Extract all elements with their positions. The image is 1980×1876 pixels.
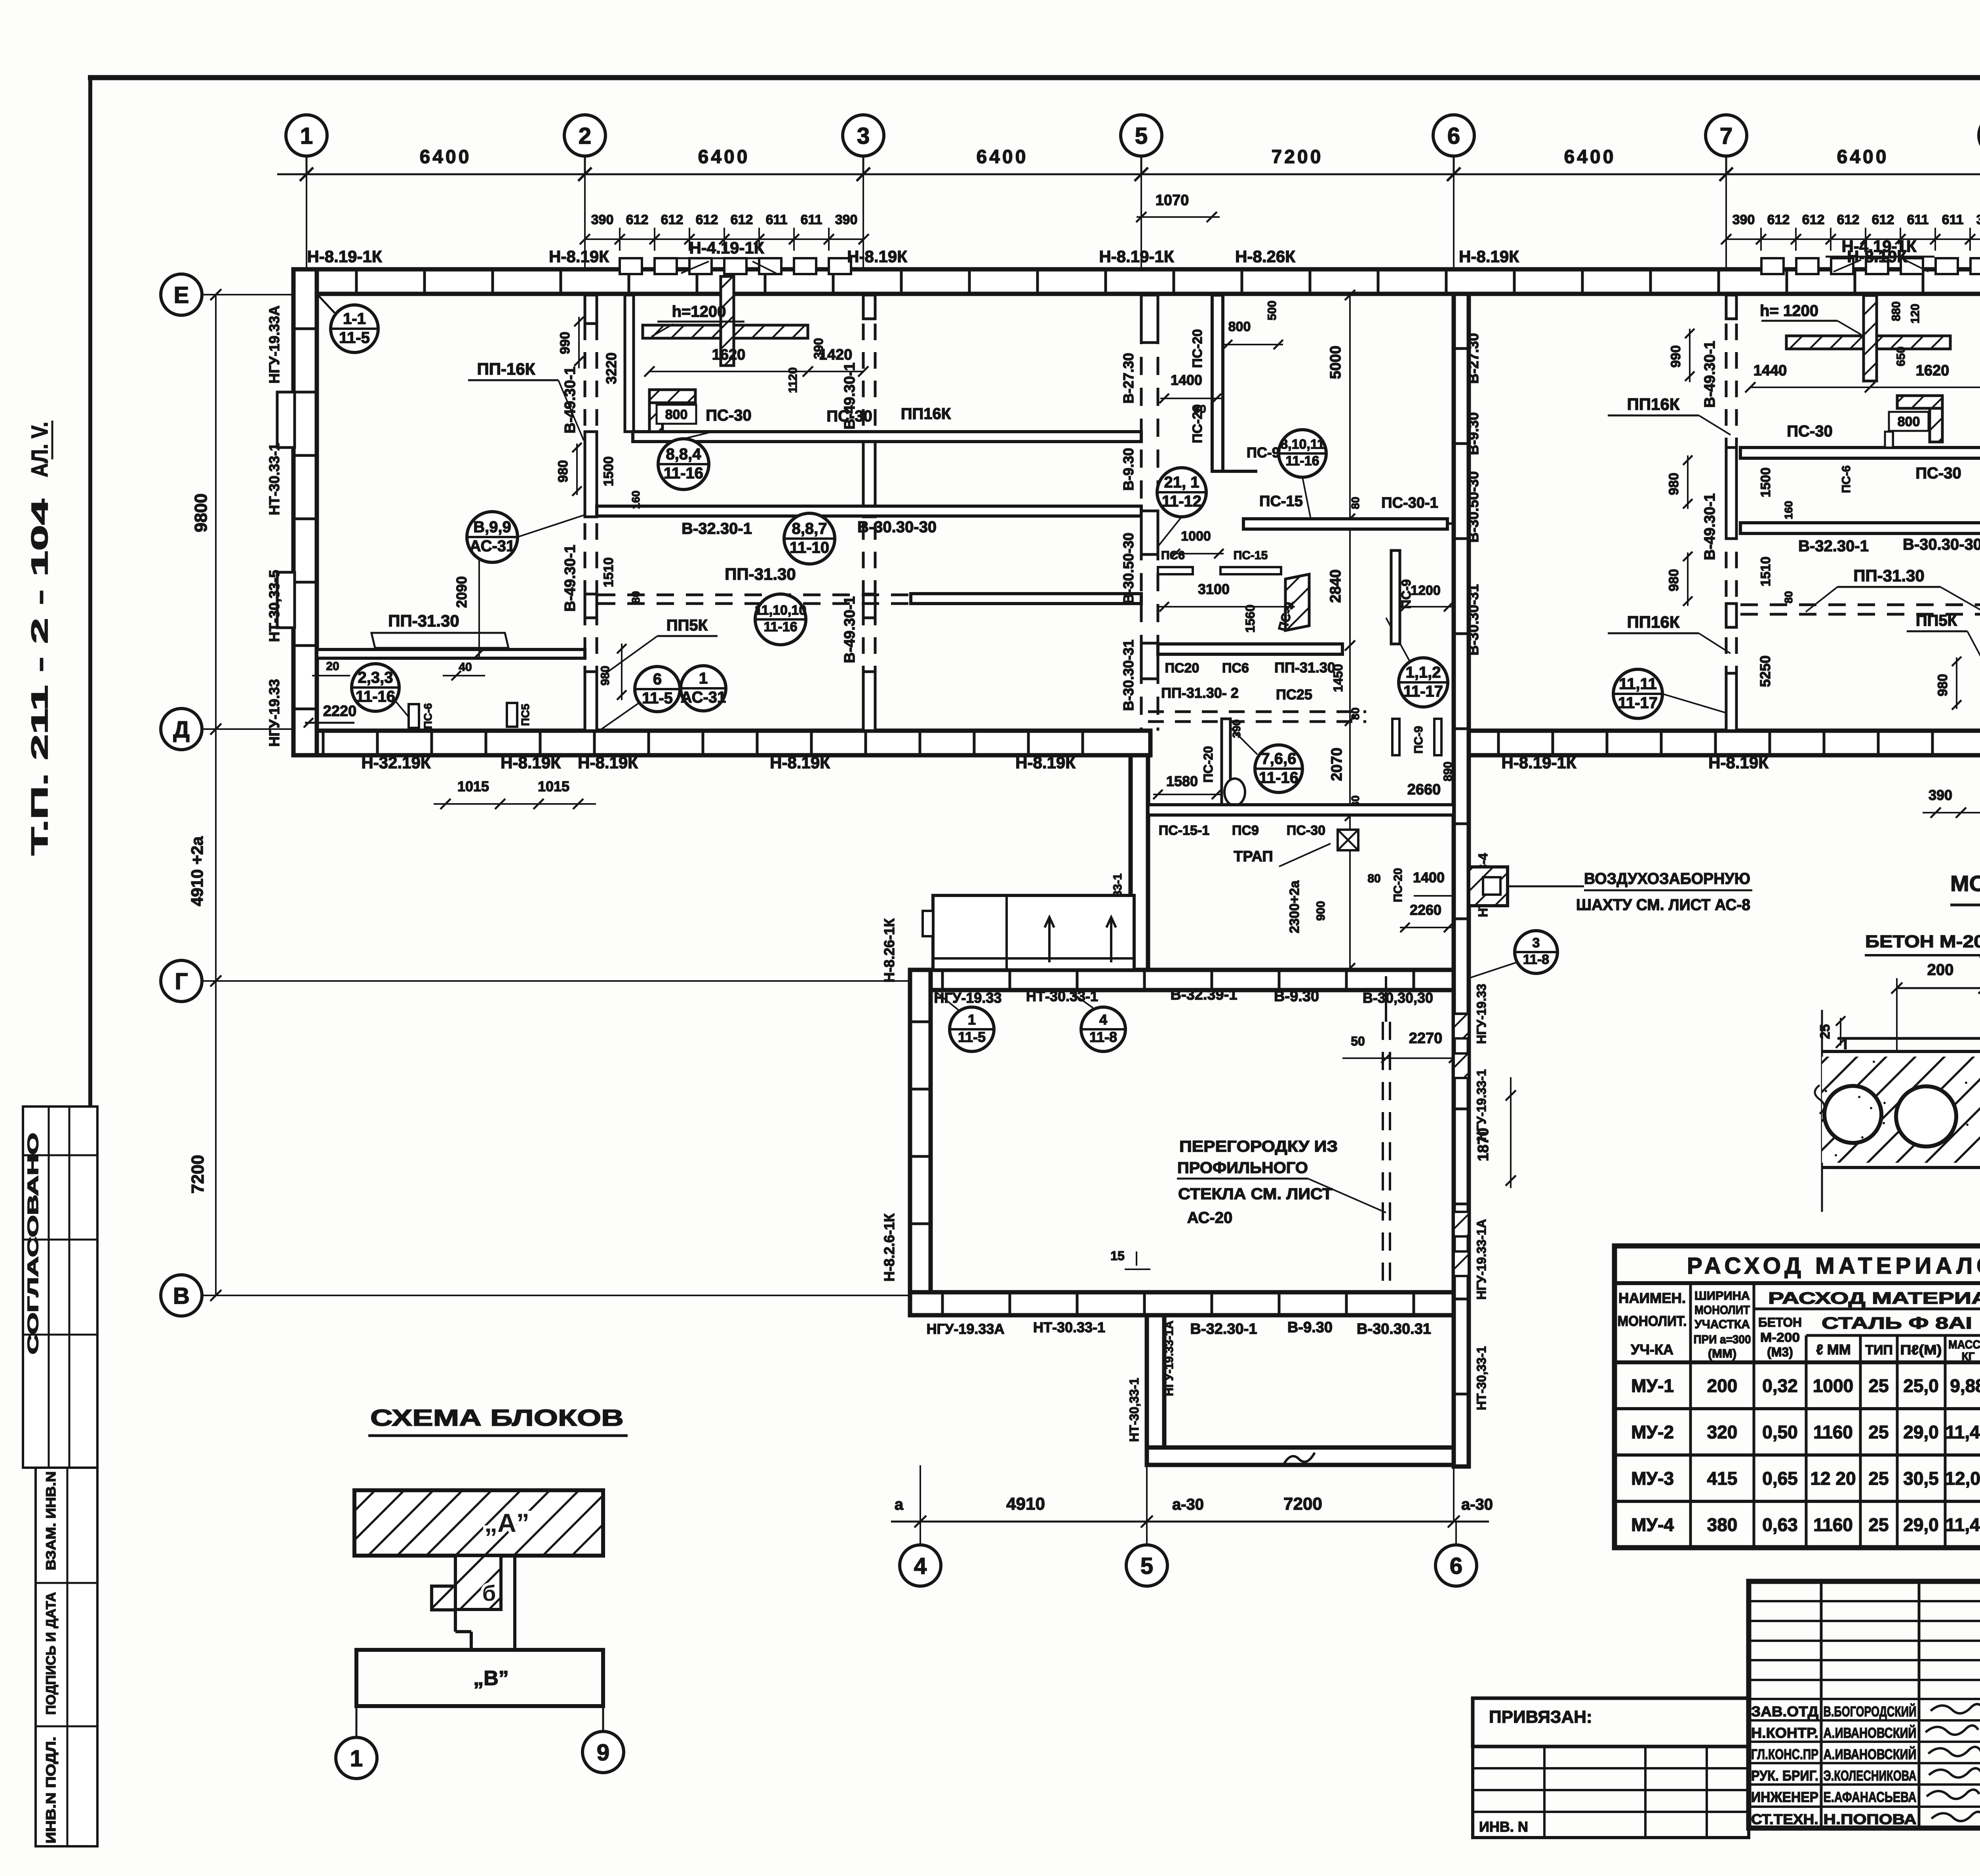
- svg-text:1: 1: [300, 123, 313, 149]
- svg-text:12 20: 12 20: [1810, 1468, 1856, 1489]
- svg-text:Н-8.19К: Н-8.19К: [1708, 753, 1769, 772]
- svg-text:6400: 6400: [1837, 147, 1889, 168]
- svg-text:УЧ-КА: УЧ-КА: [1631, 1341, 1673, 1358]
- svg-text:611: 611: [1907, 212, 1929, 227]
- svg-text:Н-8.19К: Н-8.19К: [847, 247, 907, 266]
- svg-text:h= 1200: h= 1200: [1760, 302, 1818, 320]
- svg-text:1440: 1440: [1753, 362, 1787, 379]
- svg-text:25: 25: [1868, 1514, 1889, 1535]
- svg-text:(ММ): (ММ): [1708, 1347, 1736, 1360]
- svg-text:АС-31: АС-31: [681, 689, 726, 706]
- svg-text:h=1200: h=1200: [672, 303, 726, 320]
- svg-text:НТ-30,33-1: НТ-30,33-1: [1474, 1346, 1489, 1410]
- svg-text:СТЕКЛА СМ. ЛИСТ: СТЕКЛА СМ. ЛИСТ: [1178, 1185, 1333, 1203]
- svg-text:11-17: 11-17: [1403, 683, 1443, 700]
- svg-text:980: 980: [1666, 473, 1681, 495]
- svg-text:29,0: 29,0: [1903, 1514, 1939, 1535]
- svg-text:7: 7: [1720, 123, 1732, 149]
- svg-text:В-9.30: В-9.30: [1274, 988, 1319, 1005]
- svg-text:611: 611: [766, 212, 788, 227]
- svg-text:7200: 7200: [1283, 1494, 1322, 1514]
- svg-text:В-30.30-30: В-30.30-30: [857, 518, 937, 536]
- svg-text:ПП16К: ПП16К: [1627, 613, 1680, 631]
- svg-text:160: 160: [1782, 501, 1795, 520]
- svg-text:ПС-15: ПС-15: [1234, 549, 1268, 562]
- svg-text:612: 612: [731, 212, 753, 227]
- svg-text:В-30.50-30: В-30.50-30: [1465, 471, 1481, 543]
- svg-text:80: 80: [630, 591, 642, 603]
- svg-text:390: 390: [835, 212, 858, 227]
- svg-text:1000: 1000: [1181, 529, 1211, 544]
- svg-text:В-49.30-1: В-49.30-1: [841, 596, 858, 663]
- svg-text:В-32.30-1: В-32.30-1: [1190, 1321, 1257, 1337]
- svg-text:11-12: 11-12: [1162, 493, 1201, 510]
- svg-text:В-30,30,30: В-30,30,30: [1363, 990, 1433, 1006]
- svg-text:Н.ПОПОВА: Н.ПОПОВА: [1824, 1811, 1917, 1827]
- svg-text:а-30: а-30: [1172, 1496, 1204, 1513]
- svg-text:Н-8.19К: Н-8.19К: [578, 753, 638, 772]
- svg-text:880: 880: [1890, 301, 1903, 321]
- svg-text:160: 160: [630, 491, 642, 509]
- svg-text:980: 980: [1666, 569, 1681, 592]
- svg-text:2,3,3: 2,3,3: [358, 669, 393, 686]
- svg-text:В-30.30-31: В-30.30-31: [1465, 584, 1481, 655]
- svg-text:НГУ-19.33А: НГУ-19.33А: [266, 306, 282, 384]
- svg-text:БЕТОН: БЕТОН: [1758, 1315, 1802, 1329]
- svg-text:11,11: 11,11: [1619, 675, 1657, 693]
- svg-text:11-16: 11-16: [1285, 453, 1319, 469]
- svg-text:В-30.50-30: В-30.50-30: [1120, 533, 1137, 604]
- svg-text:Пℓ(М): Пℓ(М): [1900, 1343, 1942, 1358]
- svg-text:ЗАВ.ОТД: ЗАВ.ОТД: [1751, 1703, 1818, 1720]
- svg-text:Н-8.19-1К: Н-8.19-1К: [1501, 753, 1576, 772]
- svg-text:ПП-31.30: ПП-31.30: [388, 611, 459, 630]
- svg-text:8,10,11: 8,10,11: [1280, 437, 1325, 452]
- svg-text:1560: 1560: [1243, 604, 1257, 632]
- svg-text:ПС-30: ПС-30: [1787, 423, 1832, 440]
- svg-text:ТИП: ТИП: [1865, 1343, 1893, 1358]
- svg-text:612: 612: [626, 212, 649, 227]
- svg-text:11-8: 11-8: [1523, 952, 1549, 967]
- svg-text:ПС-9: ПС-9: [1247, 444, 1280, 461]
- svg-text:ПП5К: ПП5К: [666, 617, 708, 634]
- svg-text:ПС-6: ПС-6: [1840, 465, 1853, 493]
- svg-text:А.ИВАНОВСКИЙ: А.ИВАНОВСКИЙ: [1824, 1724, 1917, 1741]
- svg-text:390: 390: [1929, 787, 1952, 803]
- svg-text:6400: 6400: [1564, 147, 1616, 168]
- svg-text:Н-8.19К: Н-8.19К: [501, 753, 561, 772]
- svg-text:11-5: 11-5: [339, 329, 370, 347]
- svg-text:В-27.30: В-27.30: [1465, 333, 1481, 384]
- svg-text:1160: 1160: [1813, 1422, 1853, 1442]
- svg-text:2: 2: [579, 123, 591, 149]
- svg-text:ПС-30-1: ПС-30-1: [1381, 495, 1438, 511]
- svg-text:НГУ-19.33-1А: НГУ-19.33-1А: [1474, 1219, 1489, 1299]
- svg-text:2260: 2260: [1410, 902, 1441, 918]
- svg-text:390: 390: [1732, 212, 1755, 227]
- svg-text:50: 50: [1351, 1034, 1365, 1048]
- svg-text:б: б: [482, 1581, 496, 1606]
- svg-text:390: 390: [811, 338, 826, 359]
- svg-text:ℓ ММ: ℓ ММ: [1816, 1341, 1851, 1358]
- svg-text:612: 612: [1767, 212, 1790, 227]
- svg-text:612: 612: [661, 212, 683, 227]
- svg-text:Н.КОНТР.: Н.КОНТР.: [1751, 1725, 1818, 1741]
- svg-text:612: 612: [1837, 212, 1860, 227]
- svg-text:390: 390: [1976, 212, 1980, 227]
- svg-text:11-10: 11-10: [790, 539, 829, 556]
- svg-text:11,46: 11,46: [1946, 1422, 1980, 1442]
- svg-text:7,6,6: 7,6,6: [1261, 750, 1297, 768]
- svg-text:1: 1: [350, 1746, 363, 1771]
- svg-text:НТ-30.33-1: НТ-30.33-1: [1033, 1319, 1105, 1335]
- svg-text:ПОДПИСЬ И ДАТА: ПОДПИСЬ И ДАТА: [44, 1592, 59, 1715]
- svg-text:„А”: „А”: [484, 1508, 529, 1537]
- svg-text:ПП16К: ПП16К: [1627, 395, 1680, 413]
- svg-text:612: 612: [1802, 212, 1825, 227]
- svg-text:11,10,10: 11,10,10: [755, 603, 806, 618]
- svg-text:МОНОЛИТ: МОНОЛИТ: [1694, 1303, 1750, 1317]
- svg-text:200: 200: [1927, 961, 1954, 979]
- svg-text:ПС-30: ПС-30: [826, 408, 872, 425]
- svg-text:2070: 2070: [1329, 748, 1345, 781]
- svg-text:1500: 1500: [601, 456, 616, 486]
- svg-text:1620: 1620: [1916, 362, 1950, 379]
- svg-text:ПРОФИЛЬНОГО: ПРОФИЛЬНОГО: [1177, 1159, 1308, 1177]
- svg-text:РАСХОД МАТЕРИАЛА НА 1 УЧ-К: РАСХОД МАТЕРИАЛА НА 1 УЧ-К: [1768, 1289, 1980, 1307]
- svg-text:ТРАП: ТРАП: [1234, 848, 1273, 865]
- svg-text:9,88: 9,88: [1950, 1375, 1980, 1396]
- svg-text:Н-4.19-1К: Н-4.19-1К: [1841, 237, 1916, 255]
- svg-text:ПЕРЕГОРОДКУ ИЗ: ПЕРЕГОРОДКУ ИЗ: [1179, 1138, 1338, 1155]
- svg-text:УЧАСТКА: УЧАСТКА: [1694, 1317, 1750, 1331]
- svg-text:ГЛ.КОНС.ПР: ГЛ.КОНС.ПР: [1751, 1746, 1818, 1762]
- svg-text:а: а: [895, 1496, 904, 1513]
- svg-text:В,9,9: В,9,9: [473, 518, 511, 536]
- svg-text:ШИРИНА: ШИРИНА: [1694, 1289, 1750, 1303]
- svg-text:0,32: 0,32: [1762, 1375, 1798, 1396]
- svg-text:МАССА: МАССА: [1948, 1338, 1980, 1351]
- svg-text:890: 890: [1441, 762, 1455, 781]
- svg-text:6400: 6400: [420, 147, 472, 168]
- svg-text:ВЗАМ. ИНВ.N: ВЗАМ. ИНВ.N: [44, 1471, 59, 1570]
- svg-text:5000: 5000: [1327, 346, 1344, 379]
- svg-text:0,63: 0,63: [1762, 1514, 1798, 1535]
- svg-text:20: 20: [326, 660, 339, 673]
- svg-text:ШАХТУ СМ. ЛИСТ АС-8: ШАХТУ СМ. ЛИСТ АС-8: [1576, 896, 1750, 914]
- svg-text:5: 5: [1140, 1553, 1153, 1579]
- svg-text:В-27.30: В-27.30: [1120, 353, 1137, 404]
- svg-text:Э.КОЛЕСНИКОВА: Э.КОЛЕСНИКОВА: [1824, 1767, 1917, 1784]
- svg-text:1015: 1015: [457, 778, 489, 794]
- svg-text:1500: 1500: [1758, 467, 1773, 497]
- svg-text:3: 3: [857, 123, 870, 149]
- svg-text:990: 990: [558, 332, 573, 354]
- svg-text:ПС-15-1: ПС-15-1: [1159, 823, 1209, 838]
- svg-text:9800: 9800: [191, 493, 211, 532]
- svg-text:ИНВ.N ПОДЛ.: ИНВ.N ПОДЛ.: [44, 1737, 59, 1844]
- svg-text:Е: Е: [174, 282, 189, 308]
- svg-text:2300+2а: 2300+2а: [1287, 880, 1302, 933]
- svg-text:2270: 2270: [1409, 1030, 1443, 1047]
- svg-text:11-16: 11-16: [664, 465, 703, 482]
- svg-text:ПС-9: ПС-9: [1412, 726, 1425, 754]
- svg-text:320: 320: [1707, 1422, 1738, 1442]
- svg-text:4910: 4910: [1006, 1494, 1045, 1514]
- svg-text:ПС-20: ПС-20: [1201, 746, 1215, 783]
- svg-text:СХЕМА БЛОКОВ: СХЕМА БЛОКОВ: [370, 1405, 624, 1431]
- svg-text:611: 611: [1942, 212, 1964, 227]
- svg-text:В-49.30-1: В-49.30-1: [562, 545, 579, 612]
- svg-text:21, 1: 21, 1: [1164, 474, 1199, 491]
- svg-text:ПС25: ПС25: [1276, 686, 1312, 703]
- svg-text:НГУ-19.33: НГУ-19.33: [1474, 984, 1489, 1044]
- svg-text:МУ-3: МУ-3: [1631, 1468, 1674, 1489]
- svg-text:А.ИВАНОВСКИЙ: А.ИВАНОВСКИЙ: [1824, 1746, 1917, 1762]
- svg-text:8,8,4: 8,8,4: [666, 446, 702, 463]
- svg-text:9: 9: [597, 1740, 609, 1766]
- svg-text:1: 1: [968, 1011, 976, 1028]
- svg-text:380: 380: [1707, 1514, 1738, 1535]
- svg-text:30,5: 30,5: [1903, 1468, 1939, 1489]
- svg-text:НГУ-19.33А: НГУ-19.33А: [927, 1321, 1005, 1337]
- svg-text:Н-8.19-1К: Н-8.19-1К: [1099, 247, 1174, 266]
- svg-text:ПС-30: ПС-30: [706, 407, 751, 424]
- svg-text:25: 25: [1868, 1375, 1889, 1396]
- svg-text:ПП-31.30: ПП-31.30: [1274, 659, 1335, 676]
- svg-text:РАСХОД МАТЕРИАЛОВ НА МОН: РАСХОД МАТЕРИАЛОВ НА МОНОЛИТНЫЕ УЧАСТКИ: [1687, 1253, 1980, 1279]
- svg-text:3220: 3220: [603, 352, 619, 384]
- svg-text:МУ-2: МУ-2: [1631, 1422, 1674, 1442]
- svg-text:Н-8.19К: Н-8.19К: [1459, 247, 1519, 266]
- svg-text:1015: 1015: [538, 778, 569, 794]
- svg-text:990: 990: [1668, 345, 1683, 368]
- svg-text:Н-8.19-1К: Н-8.19-1К: [307, 247, 382, 266]
- svg-text:В-9.30: В-9.30: [1120, 448, 1137, 491]
- svg-text:ПП5К: ПП5К: [1916, 612, 1957, 629]
- svg-text:ПП-31.30- 2: ПП-31.30- 2: [1161, 685, 1239, 701]
- svg-text:1120: 1120: [786, 367, 800, 393]
- svg-text:612: 612: [696, 212, 718, 227]
- svg-text:980: 980: [556, 460, 571, 483]
- svg-text:7200: 7200: [188, 1155, 208, 1194]
- svg-text:200: 200: [1707, 1375, 1738, 1396]
- svg-text:НГУ-19.33-1: НГУ-19.33-1: [1474, 1069, 1489, 1141]
- svg-text:4: 4: [1099, 1011, 1107, 1028]
- svg-text:СТ.ТЕХН.: СТ.ТЕХН.: [1751, 1811, 1818, 1827]
- svg-text:3100: 3100: [1198, 581, 1230, 597]
- svg-text:11-16: 11-16: [1259, 769, 1298, 787]
- svg-text:НТ-30,33-5: НТ-30,33-5: [266, 570, 282, 642]
- svg-text:В-30.30-31: В-30.30-31: [1120, 640, 1137, 711]
- svg-text:25: 25: [1868, 1468, 1889, 1489]
- svg-text:ПС6: ПС6: [1222, 661, 1249, 676]
- svg-text:В-49.30-1: В-49.30-1: [1702, 341, 1718, 408]
- svg-text:800: 800: [1898, 414, 1920, 429]
- svg-text:ПП-31.30: ПП-31.30: [725, 565, 796, 583]
- svg-text:В-30.30-30: В-30.30-30: [1903, 536, 1980, 553]
- svg-text:НГУ-19.33: НГУ-19.33: [266, 679, 282, 747]
- svg-text:СТАЛЬ Ф 8АІ: СТАЛЬ Ф 8АІ: [1822, 1314, 1972, 1332]
- svg-text:(М3): (М3): [1767, 1345, 1793, 1359]
- svg-text:2840: 2840: [1327, 569, 1344, 603]
- svg-text:11-8: 11-8: [1089, 1029, 1117, 1045]
- svg-text:ПРИ а=300: ПРИ а=300: [1694, 1333, 1751, 1346]
- svg-text:ВОЗДУХОЗАБОРНУЮ: ВОЗДУХОЗАБОРНУЮ: [1584, 870, 1750, 888]
- svg-text:390: 390: [1230, 720, 1243, 738]
- svg-text:11-16: 11-16: [356, 688, 395, 705]
- svg-text:АС-31: АС-31: [470, 537, 515, 555]
- svg-text:2220: 2220: [323, 703, 357, 720]
- svg-text:ПС-30: ПС-30: [1915, 465, 1961, 482]
- svg-text:1,1,2: 1,1,2: [1406, 664, 1441, 681]
- svg-text:В-32.30-1: В-32.30-1: [1798, 537, 1869, 555]
- svg-text:611: 611: [801, 212, 822, 227]
- svg-text:ПРИВЯЗАН:: ПРИВЯЗАН:: [1489, 1707, 1592, 1727]
- svg-text:В-30.30.31: В-30.30.31: [1357, 1321, 1431, 1337]
- svg-text:1510: 1510: [601, 557, 616, 587]
- svg-text:Г: Г: [175, 969, 188, 994]
- svg-text:5250: 5250: [1757, 655, 1773, 687]
- svg-text:Н-8.19К: Н-8.19К: [770, 753, 830, 772]
- svg-text:ИНЖЕНЕР: ИНЖЕНЕР: [1751, 1789, 1818, 1805]
- svg-text:В-32.39-1: В-32.39-1: [1171, 987, 1237, 1003]
- svg-text:НТ-30.33-1: НТ-30.33-1: [1026, 988, 1098, 1004]
- svg-text:В-9.30: В-9.30: [1287, 1319, 1333, 1336]
- svg-text:ПС-15: ПС-15: [1259, 493, 1303, 510]
- svg-text:НГУ-19.33-1А: НГУ-19.33-1А: [1163, 1321, 1176, 1396]
- svg-text:0,65: 0,65: [1762, 1468, 1798, 1489]
- svg-text:1400: 1400: [1171, 372, 1202, 388]
- svg-text:2090: 2090: [453, 576, 470, 608]
- svg-text:РУК. БРИГ.: РУК. БРИГ.: [1751, 1767, 1818, 1784]
- svg-text:БЕТОН М-200: БЕТОН М-200: [1865, 932, 1980, 951]
- svg-text:СОГЛАСОВАНО: СОГЛАСОВАНО: [25, 1133, 42, 1354]
- svg-text:980: 980: [599, 666, 612, 686]
- svg-text:ПС5: ПС5: [519, 704, 531, 726]
- svg-text:ПС-30: ПС-30: [1287, 823, 1325, 838]
- svg-text:4: 4: [914, 1553, 927, 1579]
- svg-text:11-5: 11-5: [642, 689, 673, 707]
- svg-text:ПП16К: ПП16К: [901, 405, 951, 423]
- svg-text:„В”: „В”: [473, 1667, 509, 1690]
- svg-text:Д: Д: [173, 717, 189, 743]
- svg-text:Н-8.19К: Н-8.19К: [549, 247, 609, 266]
- svg-text:1: 1: [699, 670, 708, 687]
- svg-text:1160: 1160: [1813, 1514, 1853, 1535]
- svg-text:Н-4.19-1К: Н-4.19-1К: [689, 238, 764, 257]
- svg-text:25: 25: [1818, 1024, 1833, 1039]
- svg-text:В.БОГОРОДСКИЙ: В.БОГОРОДСКИЙ: [1824, 1703, 1917, 1720]
- svg-text:ПС-20: ПС-20: [1392, 868, 1405, 903]
- svg-text:В: В: [173, 1283, 190, 1309]
- svg-text:В-49.30-1: В-49.30-1: [1702, 493, 1718, 560]
- svg-text:12,05: 12,05: [1945, 1468, 1980, 1489]
- svg-text:390: 390: [591, 212, 614, 227]
- svg-text:80: 80: [1782, 591, 1795, 603]
- svg-text:29,0: 29,0: [1903, 1422, 1939, 1442]
- svg-text:6400: 6400: [977, 147, 1028, 168]
- svg-text:6: 6: [1447, 123, 1460, 149]
- svg-text:ПП-16К: ПП-16К: [477, 360, 535, 378]
- svg-text:80: 80: [1349, 707, 1361, 720]
- svg-text:11-17: 11-17: [1618, 694, 1658, 712]
- svg-text:Н-8.2.6-1К: Н-8.2.6-1К: [881, 1213, 897, 1282]
- svg-text:415: 415: [1707, 1468, 1738, 1489]
- svg-text:6: 6: [653, 670, 662, 688]
- svg-text:КГ: КГ: [1962, 1350, 1975, 1362]
- svg-text:800: 800: [665, 407, 688, 422]
- svg-text:4910 +2а: 4910 +2а: [188, 836, 206, 906]
- svg-text:НТ-30,33-1: НТ-30,33-1: [1127, 1378, 1141, 1442]
- svg-text:ПП-31.30: ПП-31.30: [1853, 566, 1924, 585]
- svg-text:15: 15: [1110, 1249, 1125, 1263]
- svg-text:1200: 1200: [1411, 583, 1441, 598]
- svg-text:НТ-30.33-1: НТ-30.33-1: [266, 443, 282, 515]
- svg-text:ИНВ. N: ИНВ. N: [1479, 1819, 1528, 1835]
- svg-text:МУ-4: МУ-4: [1631, 1514, 1674, 1535]
- svg-text:ПС20: ПС20: [1165, 661, 1199, 676]
- svg-text:500: 500: [1266, 301, 1279, 320]
- svg-text:980: 980: [1935, 674, 1950, 697]
- svg-text:120: 120: [1909, 304, 1922, 324]
- svg-text:80: 80: [1194, 403, 1206, 415]
- svg-text:0,50: 0,50: [1762, 1422, 1798, 1442]
- svg-text:МУ-1: МУ-1: [1631, 1375, 1674, 1396]
- svg-text:11-5: 11-5: [958, 1029, 986, 1045]
- svg-text:900: 900: [1314, 901, 1327, 921]
- svg-text:а-30: а-30: [1461, 1496, 1493, 1513]
- svg-text:6: 6: [1450, 1553, 1462, 1579]
- svg-text:1000: 1000: [1813, 1375, 1853, 1396]
- svg-text:7200: 7200: [1272, 147, 1323, 168]
- svg-text:1580: 1580: [1166, 773, 1198, 789]
- svg-text:В-32.30-1: В-32.30-1: [682, 520, 752, 537]
- svg-text:80: 80: [1367, 872, 1380, 885]
- svg-text:11-16: 11-16: [763, 619, 797, 634]
- svg-text:В-9.30: В-9.30: [1465, 412, 1481, 455]
- svg-text:Н-32.19К: Н-32.19К: [361, 753, 430, 772]
- svg-text:612: 612: [1872, 212, 1894, 227]
- svg-text:1-1: 1-1: [343, 310, 366, 328]
- svg-text:2660: 2660: [1407, 781, 1441, 798]
- svg-text:1070: 1070: [1156, 192, 1189, 209]
- svg-text:1620: 1620: [712, 347, 746, 363]
- svg-text:МОНОЛИТНЫЙ УЧАСТОК: МОНОЛИТНЫЙ УЧАСТОК: [1950, 871, 1980, 896]
- svg-text:11,46: 11,46: [1946, 1514, 1980, 1535]
- svg-text:80: 80: [1349, 497, 1361, 509]
- svg-text:1400: 1400: [1413, 869, 1445, 886]
- svg-text:АС-20: АС-20: [1187, 1209, 1233, 1227]
- svg-text:650: 650: [1894, 347, 1908, 366]
- svg-text:800: 800: [1228, 319, 1251, 334]
- svg-text:5: 5: [1135, 123, 1148, 149]
- svg-text:ПС-20: ПС-20: [1190, 329, 1205, 368]
- svg-text:25: 25: [1868, 1422, 1889, 1442]
- svg-text:АЛ. V.: АЛ. V.: [27, 422, 53, 477]
- svg-text:МОНОЛИТ.: МОНОЛИТ.: [1618, 1313, 1687, 1329]
- svg-text:Н-8.26-1К: Н-8.26-1К: [881, 918, 897, 983]
- svg-text:ПС-6: ПС-6: [422, 703, 434, 729]
- svg-text:1510: 1510: [1758, 556, 1773, 587]
- svg-text:М-200: М-200: [1760, 1330, 1800, 1345]
- svg-text:3: 3: [1533, 935, 1540, 950]
- svg-text:Т.П. 211 - 2 - 104: Т.П. 211 - 2 - 104: [27, 499, 53, 855]
- svg-text:Н-8.26К: Н-8.26К: [1235, 247, 1295, 266]
- svg-text:25,0: 25,0: [1903, 1375, 1939, 1396]
- svg-text:8,8,7: 8,8,7: [792, 520, 827, 537]
- svg-text:ПС9: ПС9: [1232, 823, 1259, 838]
